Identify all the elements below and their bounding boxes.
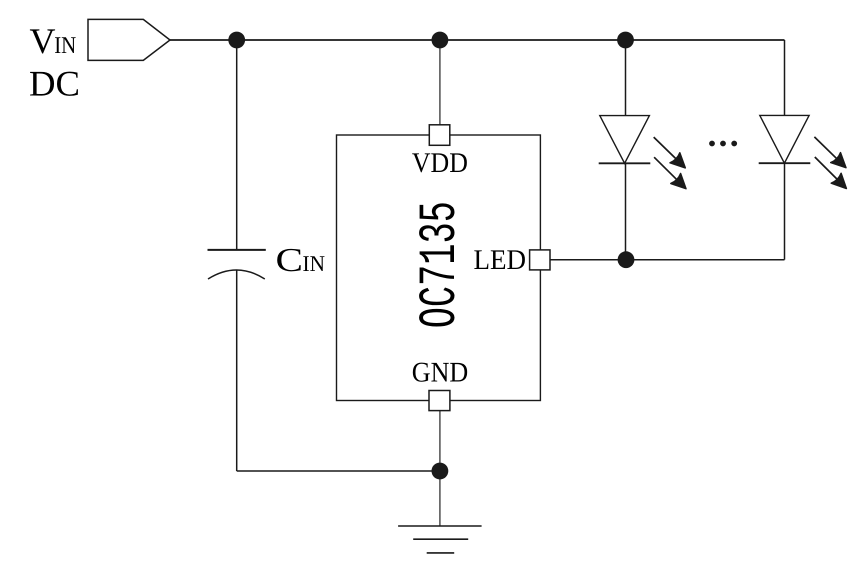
node junction LED1 anode <box>617 32 634 49</box>
capacitor CIN <box>208 250 266 279</box>
wire LED2 cathode <box>784 163 786 260</box>
LED D2 light arrow 2 <box>815 157 847 189</box>
pin LED <box>530 250 550 270</box>
svg-text:GND: GND <box>412 357 469 388</box>
LED D1 light arrow 1 <box>654 137 686 168</box>
svg-text:V: V <box>30 21 56 61</box>
svg-text:LED: LED <box>474 245 527 276</box>
wire right drop to D2 <box>784 40 786 116</box>
pin GND <box>429 391 450 411</box>
wire top rail <box>170 39 785 41</box>
LED D1 <box>599 116 651 164</box>
wire GND pin to ground <box>439 411 441 526</box>
svg-text:DC: DC <box>29 63 80 103</box>
wire LED1 anode <box>625 40 627 116</box>
node junction LED rail <box>618 251 635 268</box>
svg-text:C: C <box>276 242 304 279</box>
wire LED pin rail <box>550 259 785 261</box>
node junction VDD <box>432 32 449 49</box>
connector VIN <box>88 19 170 60</box>
svg-text:OC7135: OC7135 <box>411 201 470 328</box>
svg-text:IN: IN <box>54 33 76 59</box>
svg-text:IN: IN <box>303 251 326 276</box>
LED D1 light arrow 2 <box>654 157 686 189</box>
wire bottom rail <box>237 470 440 472</box>
LED D2 light arrow 1 <box>814 137 846 168</box>
wire CIN top <box>236 40 238 250</box>
IC U1 OC7135 body <box>337 135 541 401</box>
LED D2 <box>759 115 811 163</box>
ground <box>398 526 482 553</box>
wire CIN bottom <box>236 270 238 471</box>
wire VDD drop <box>439 40 441 126</box>
node junction top-left <box>228 32 245 49</box>
svg-text:VDD: VDD <box>412 148 468 179</box>
wire LED1 cathode <box>625 163 627 259</box>
ellipsis between LEDs <box>709 141 737 147</box>
pin VDD <box>429 125 450 146</box>
node junction ground <box>432 463 449 480</box>
